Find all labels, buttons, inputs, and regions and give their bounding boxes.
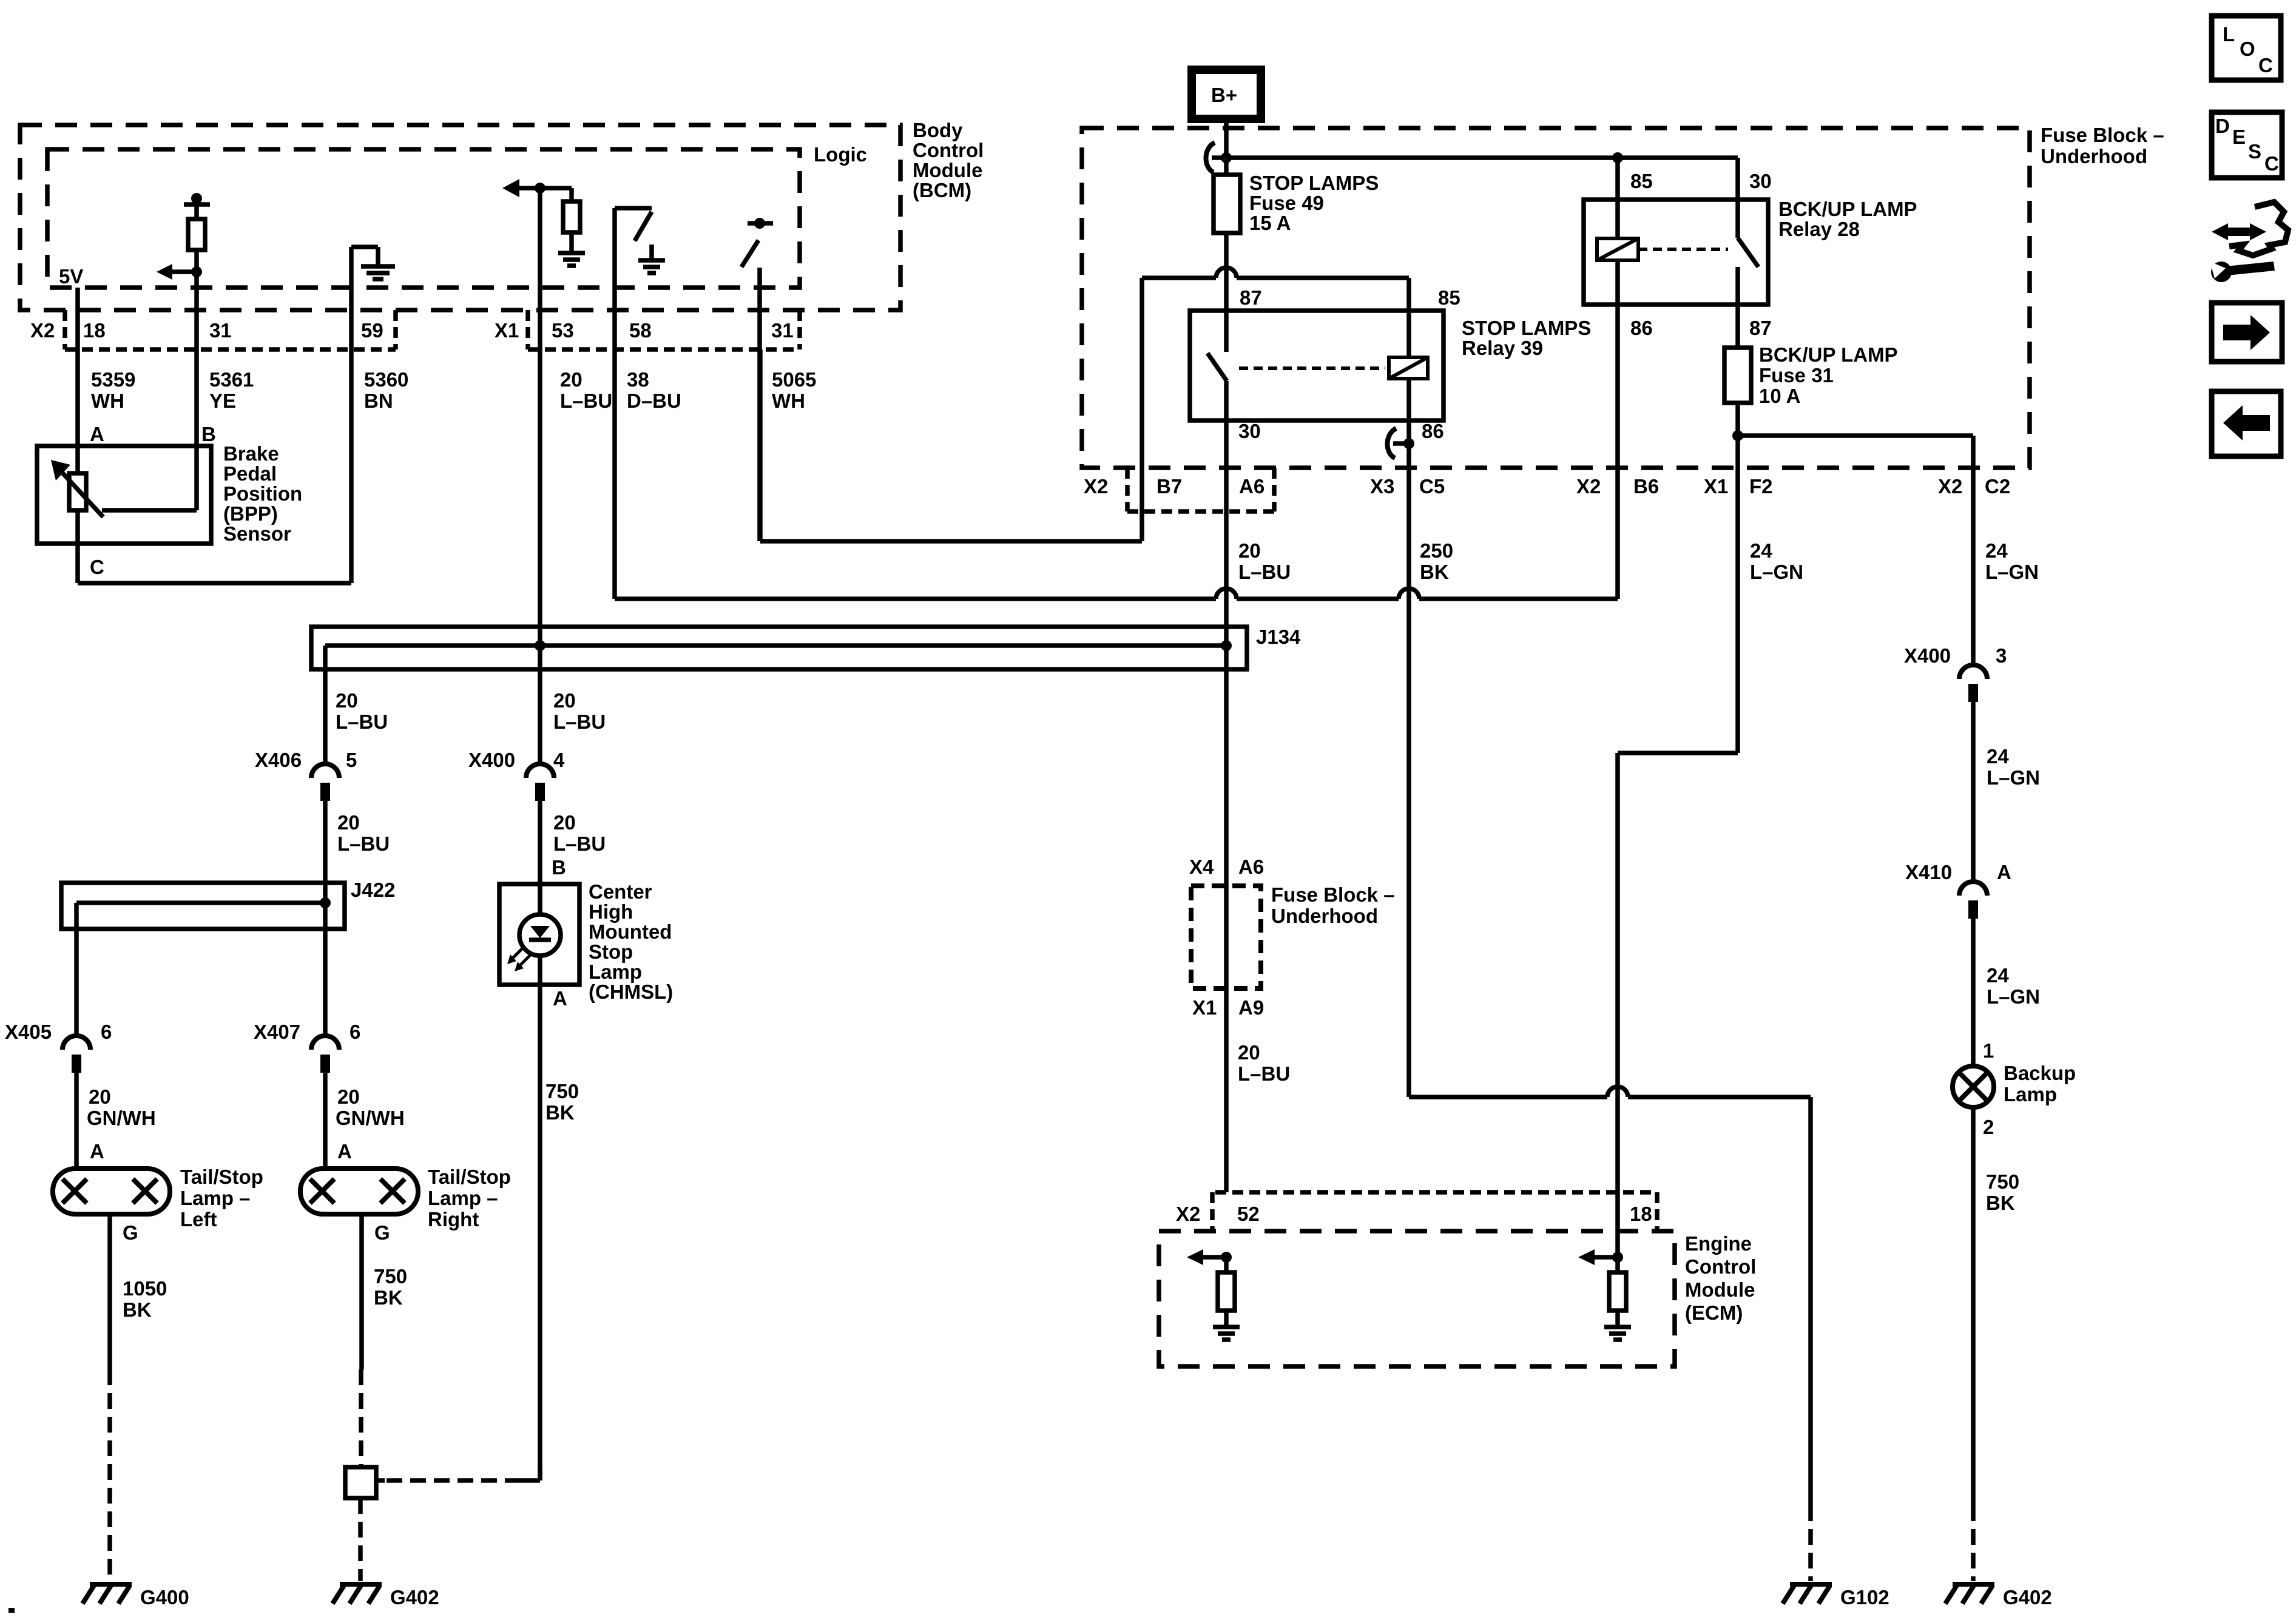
label X4 A6	[1189, 856, 1264, 878]
label pin 58	[629, 319, 652, 342]
wire BCM pin18 to BPP A	[75, 288, 80, 473]
icon DESC box	[2212, 112, 2282, 178]
svg-text:L–GN: L–GN	[1750, 561, 1803, 583]
splice pack J422	[61, 883, 345, 929]
svg-text:20: 20	[553, 811, 576, 834]
label wire 5360 BN	[364, 368, 408, 412]
potentiometer in BPP sensor	[51, 460, 197, 517]
svg-text:F2: F2	[1749, 475, 1773, 498]
svg-text:(ECM): (ECM)	[1685, 1301, 1743, 1324]
ECM connector dotted bracket	[1212, 1192, 1657, 1231]
svg-text:30: 30	[1238, 420, 1261, 442]
svg-text:L–BU: L–BU	[1238, 1062, 1290, 1085]
svg-text:BCK/UP LAMP: BCK/UP LAMP	[1778, 198, 1917, 220]
label A pin CHMSL	[553, 987, 567, 1010]
svg-text:X407: X407	[254, 1021, 300, 1043]
resistor in BCM on pin53 line	[563, 188, 580, 252]
svg-text:Tail/Stop: Tail/Stop	[180, 1166, 263, 1188]
svg-text:WH: WH	[772, 390, 805, 412]
svg-text:6: 6	[101, 1021, 112, 1043]
label STOP LAMPS Fuse 49 15 A	[1249, 172, 1379, 234]
svg-text:20: 20	[336, 689, 358, 712]
svg-text:X2: X2	[1576, 475, 1601, 498]
svg-text:5359: 5359	[91, 368, 135, 391]
node relay39 86 junction	[1403, 438, 1414, 449]
LED lamp CHMSL	[519, 884, 561, 985]
svg-text:WH: WH	[91, 390, 124, 412]
hook continuation symbol at B+ rail	[1206, 143, 1215, 172]
svg-text:G400: G400	[140, 1586, 189, 1609]
LED emission arrows CHMSL	[507, 948, 530, 971]
svg-text:5360: 5360	[364, 368, 408, 391]
ground G402 left	[333, 1584, 439, 1609]
svg-text:Relay 39: Relay 39	[1462, 337, 1543, 359]
svg-text:C2: C2	[1985, 475, 2010, 498]
fuse F49 STOP LAMPS	[1214, 175, 1240, 233]
svg-text:L–BU: L–BU	[553, 711, 606, 733]
svg-text:A: A	[553, 987, 567, 1010]
svg-text:Pedal: Pedal	[223, 462, 277, 485]
BCM Logic inner dashed box	[47, 149, 800, 288]
label 30 relay28	[1749, 170, 1772, 192]
svg-text:X410: X410	[1905, 861, 1952, 883]
icon LOC box	[2212, 16, 2281, 80]
connector X400 pin3	[1904, 644, 2007, 702]
svg-text:X406: X406	[255, 749, 302, 771]
svg-text:Left: Left	[180, 1208, 217, 1230]
ground (BCM pin53 resistor)	[558, 253, 585, 266]
label A6	[1239, 475, 1264, 498]
svg-text:5361: 5361	[209, 368, 254, 391]
svg-text:Sensor: Sensor	[223, 522, 291, 545]
svg-text:B7: B7	[1156, 475, 1182, 498]
switch blade relay39	[1207, 353, 1227, 381]
ground G102	[1783, 1584, 1889, 1609]
wire BCM pin31 to BPP B	[194, 272, 199, 510]
wire CHMSL ground dashed link	[376, 1465, 540, 1480]
svg-text:750: 750	[545, 1080, 579, 1102]
svg-text:Fuse Block –: Fuse Block –	[2041, 124, 2164, 146]
svg-text:A: A	[1997, 861, 2011, 883]
svg-text:Fuse 49: Fuse 49	[1249, 192, 1324, 214]
label Tail/Stop Lamp Right	[428, 1166, 511, 1230]
label X3 C5	[1370, 475, 1445, 498]
svg-text:87: 87	[1240, 286, 1262, 309]
svg-text:Lamp: Lamp	[589, 960, 642, 983]
svg-text:Control: Control	[1685, 1255, 1756, 1278]
svg-text:5065: 5065	[772, 368, 816, 391]
svg-text:250: 250	[1420, 539, 1453, 562]
svg-text:BK: BK	[374, 1286, 403, 1309]
svg-text:750: 750	[1986, 1170, 2019, 1193]
svg-text:Body: Body	[913, 119, 963, 141]
label 24 L-GN lower	[1987, 964, 2040, 1008]
wire BCM pin31 5065 down	[757, 268, 762, 541]
svg-text:J422: J422	[351, 879, 395, 901]
wire BCM pin53 down	[538, 188, 542, 764]
svg-text:Fuse Block –: Fuse Block –	[1271, 883, 1395, 906]
svg-text:GN/WH: GN/WH	[87, 1107, 156, 1129]
label 24 L-GN below C2	[1985, 539, 2039, 583]
wire X400-4 to CHMSL	[538, 801, 542, 914]
svg-text:L–BU: L–BU	[337, 832, 390, 855]
svg-text:L–BU: L–BU	[336, 711, 388, 733]
ground (BCM pin58 switch)	[638, 260, 665, 273]
wire relay39 30 internal	[1224, 381, 1229, 420]
connector bracket B7 A6	[1127, 468, 1274, 511]
ground G400	[83, 1584, 189, 1609]
svg-text:BK: BK	[545, 1101, 575, 1124]
svg-text:G: G	[123, 1221, 138, 1244]
label Body Control Module (BCM)	[913, 119, 984, 201]
svg-text:B6: B6	[1633, 475, 1659, 498]
svg-text:B: B	[552, 856, 566, 879]
wire 38 D-BU horizontal with hops	[615, 589, 1618, 599]
svg-text:(BCM): (BCM)	[913, 179, 971, 201]
svg-text:20: 20	[1238, 1041, 1260, 1064]
label 20 L-BU above CHMSL	[553, 811, 606, 855]
svg-text:(BPP): (BPP)	[223, 502, 278, 525]
label X1 A9	[1192, 996, 1264, 1019]
svg-text:A6: A6	[1239, 475, 1264, 498]
svg-text:B: B	[201, 423, 216, 445]
node ECM 52 junction with arrow	[1187, 1249, 1232, 1265]
label pin 53	[552, 319, 574, 342]
connector X407	[254, 1021, 360, 1073]
svg-text:Module: Module	[913, 159, 982, 181]
lamp Tail/Stop Right	[300, 1169, 418, 1214]
svg-text:24: 24	[1750, 539, 1772, 562]
svg-text:J134: J134	[1256, 626, 1301, 648]
wire X400-3 to X410	[1971, 702, 1976, 882]
wire left lamp ground	[107, 1214, 112, 1581]
label X2 C2	[1938, 475, 2010, 498]
label Fuse Block Underhood	[2041, 124, 2164, 167]
CHMSL box	[499, 884, 579, 985]
svg-text:58: 58	[629, 319, 652, 342]
label 750 BK backup	[1986, 1170, 2019, 1214]
svg-text:BCK/UP LAMP: BCK/UP LAMP	[1759, 343, 1898, 366]
label pin 18	[83, 319, 106, 342]
svg-text:L–BU: L–BU	[553, 832, 606, 855]
svg-text:20: 20	[337, 811, 360, 834]
label 86 relay39	[1422, 420, 1444, 442]
node junction with left arrow on pin53 line	[502, 179, 572, 197]
label Center High Mounted Stop Lamp (CHMSL)	[589, 880, 673, 1003]
svg-text:Position: Position	[223, 482, 302, 505]
svg-text:L–GN: L–GN	[1985, 561, 2039, 583]
svg-text:High: High	[589, 900, 633, 923]
connector X410	[1905, 861, 2011, 919]
svg-text:85: 85	[1438, 286, 1460, 309]
label X2 B6	[1576, 475, 1659, 498]
label X1 connector	[495, 319, 519, 342]
svg-text:52: 52	[1237, 1203, 1260, 1225]
svg-text:Mounted: Mounted	[589, 920, 672, 943]
coil relay39	[1389, 311, 1428, 420]
svg-text:53: 53	[552, 319, 574, 342]
label 87 relay28	[1749, 317, 1772, 339]
svg-text:A6: A6	[1238, 856, 1264, 878]
label 20 L-BU above X400-4	[553, 689, 606, 733]
ground splice box G402	[345, 1467, 376, 1581]
svg-text:5V: 5V	[59, 265, 83, 288]
label 5V	[59, 265, 83, 288]
node J422 splice dot	[320, 897, 331, 908]
wire B7 drop	[1140, 278, 1144, 541]
page corner mark	[8, 1608, 15, 1613]
svg-text:X2: X2	[1938, 475, 1962, 498]
wire J422 through to X407	[323, 883, 328, 1036]
svg-text:C5: C5	[1419, 475, 1445, 498]
label 20 L-BU above X406	[336, 689, 388, 733]
label BCK/UP LAMP Relay 28	[1778, 198, 1917, 240]
label Logic	[814, 143, 867, 166]
svg-text:X2: X2	[1176, 1203, 1200, 1225]
resistor ECM 52	[1218, 1257, 1235, 1327]
label A pin left lamp	[90, 1140, 104, 1163]
label B pin CHMSL	[552, 856, 566, 879]
svg-text:(CHMSL): (CHMSL)	[589, 981, 673, 1003]
label A pin right lamp	[337, 1140, 352, 1163]
svg-text:Relay 28: Relay 28	[1778, 218, 1860, 240]
node relay28 85 tap	[1612, 152, 1623, 200]
svg-text:Lamp: Lamp	[2004, 1083, 2057, 1106]
svg-text:BN: BN	[364, 390, 393, 412]
wire backup lamp ground	[1971, 1107, 1976, 1581]
svg-text:X1: X1	[1192, 996, 1217, 1019]
wire 250 BK to G102 with hop	[1409, 1087, 1811, 1581]
label 2 pin backup lamp	[1983, 1116, 1994, 1138]
label 30 relay39	[1238, 420, 1261, 442]
BCM outer dashed box	[20, 125, 900, 310]
label 1050 BK	[123, 1277, 167, 1321]
svg-text:C: C	[90, 556, 104, 578]
svg-text:D–BU: D–BU	[627, 390, 681, 412]
wire CHMSL A down	[538, 985, 542, 1480]
label J422	[351, 879, 395, 901]
label 750 BK right lamp	[374, 1265, 407, 1309]
label 85 relay28	[1630, 170, 1653, 192]
svg-text:B+: B+	[1211, 84, 1237, 106]
connector X405	[5, 1021, 112, 1073]
wire right lamp ground	[361, 1214, 362, 1467]
svg-text:X1: X1	[495, 319, 519, 342]
hook continuation at relay39 86	[1387, 428, 1409, 458]
wire J422 tap to X405	[74, 903, 79, 1036]
ECM dashed box	[1159, 1231, 1675, 1366]
svg-text:O: O	[2240, 38, 2255, 60]
svg-text:85: 85	[1630, 170, 1653, 192]
svg-text:X405: X405	[5, 1021, 52, 1043]
wire to C2	[1738, 436, 1973, 665]
label 20 GN/WH left	[87, 1085, 156, 1129]
label 20 L-BU above J422	[337, 811, 390, 855]
wire fuse49 to relay39 pin87	[1224, 233, 1229, 352]
svg-text:Backup: Backup	[2004, 1062, 2076, 1084]
svg-text:4: 4	[553, 749, 565, 771]
svg-text:G102: G102	[1840, 1586, 1889, 1609]
svg-text:L: L	[2223, 23, 2235, 46]
svg-text:18: 18	[83, 319, 106, 342]
svg-text:86: 86	[1630, 317, 1653, 339]
svg-text:Lamp –: Lamp –	[180, 1187, 251, 1209]
label pin 31	[209, 319, 232, 342]
actuator dashed link relay39	[1239, 366, 1385, 370]
relay 39 STOP LAMPS box	[1190, 311, 1443, 420]
resistor ECM 18	[1609, 1257, 1626, 1327]
svg-text:10 A: 10 A	[1759, 385, 1800, 407]
label B pin BPP	[201, 423, 216, 445]
relay 28 BCK/UP LAMP box	[1584, 200, 1768, 305]
svg-text:D: D	[2215, 115, 2230, 137]
svg-text:Module: Module	[1685, 1278, 1755, 1301]
label Engine Control Module (ECM)	[1685, 1232, 1756, 1324]
wire F2 jog to ECM 18	[1618, 753, 1738, 1257]
node fuse31 output junction	[1732, 430, 1743, 441]
icon forward arrow box	[2212, 303, 2282, 362]
wire B7 to BCM 5065	[760, 349, 1142, 541]
svg-text:X2: X2	[30, 319, 55, 342]
label pin 18 ECM	[1630, 1203, 1652, 1225]
label X1 F2	[1704, 475, 1773, 498]
svg-text:24: 24	[1987, 964, 2009, 987]
ground G402 right	[1945, 1584, 2052, 1609]
label wire 20 L-BU pin53	[560, 368, 612, 412]
svg-text:Logic: Logic	[814, 143, 867, 166]
fuse F31 BCK/UP LAMP	[1724, 348, 1751, 403]
svg-text:L–GN: L–GN	[1987, 766, 2040, 789]
svg-text:S: S	[2248, 140, 2261, 163]
wire X406 to J422	[323, 801, 328, 883]
switch in BCM on pin58 line	[615, 208, 652, 259]
label Tail/Stop Lamp Left	[180, 1166, 263, 1230]
BPP sensor box	[37, 446, 211, 544]
svg-text:GN/WH: GN/WH	[336, 1107, 405, 1129]
svg-text:G: G	[374, 1221, 390, 1244]
svg-text:Underhood: Underhood	[2041, 145, 2147, 167]
connector X400 pin4	[468, 749, 565, 801]
label X2 connector	[30, 319, 55, 342]
svg-text:1050: 1050	[123, 1277, 167, 1300]
wire X405 to left lamp	[74, 1073, 79, 1169]
resistor in BCM on pin31 line	[184, 193, 210, 272]
BCM connector X2 bracket	[65, 310, 396, 349]
svg-text:38: 38	[627, 368, 649, 391]
node J134 splice dot right end	[1221, 640, 1232, 651]
label pin 31 X1	[771, 319, 794, 342]
svg-text:BK: BK	[1986, 1192, 2015, 1214]
wire BCM pin59 internal ground	[351, 247, 395, 279]
svg-text:A9: A9	[1238, 996, 1264, 1019]
svg-text:Lamp –: Lamp –	[428, 1187, 498, 1209]
svg-text:20: 20	[560, 368, 582, 391]
wire B+ rail to relay 28	[1212, 158, 1738, 200]
label 86 relay28	[1630, 317, 1653, 339]
BCM connector X1 bracket	[528, 310, 800, 349]
ground ECM 52	[1213, 1327, 1240, 1340]
wire X407 to right lamp	[323, 1073, 328, 1169]
svg-text:86: 86	[1422, 420, 1444, 442]
label 24 L-GN mid	[1987, 745, 2040, 789]
svg-text:24: 24	[1987, 745, 2009, 768]
svg-text:X400: X400	[1904, 644, 1951, 667]
svg-text:X3: X3	[1370, 475, 1394, 498]
label BCK/UP LAMP Fuse 31 10 A	[1759, 343, 1898, 407]
label wire 5359 WH	[91, 368, 135, 412]
actuator dashed link relay28	[1638, 248, 1728, 251]
svg-text:5: 5	[346, 749, 357, 771]
label 87 relay39	[1240, 286, 1262, 309]
svg-text:6: 6	[349, 1021, 360, 1043]
icon vehicle wiring with wrench	[2210, 202, 2288, 282]
svg-text:A: A	[90, 1140, 104, 1163]
label C pin BPP	[90, 556, 104, 578]
wire BPP C to pin59 wire	[78, 349, 351, 583]
wire relay28 86 down to BCM58 line	[1615, 305, 1620, 599]
svg-text:X4: X4	[1189, 856, 1214, 878]
svg-text:20: 20	[89, 1085, 111, 1108]
svg-text:87: 87	[1749, 317, 1772, 339]
svg-text:E: E	[2232, 126, 2246, 148]
svg-text:Right: Right	[428, 1208, 479, 1230]
node J134 splice dot on CHMSL feed	[535, 640, 545, 651]
wire relay39 85 to B7 with hop over 87 wire	[1142, 268, 1409, 311]
svg-text:X1: X1	[1704, 475, 1728, 498]
wire BCM pin58 down	[612, 208, 617, 599]
coil relay28	[1597, 200, 1638, 305]
svg-text:C: C	[2258, 54, 2273, 76]
svg-text:X2: X2	[1084, 475, 1108, 498]
label J134	[1256, 626, 1301, 648]
label X2 ECM	[1176, 1203, 1200, 1225]
B+ power symbol box	[1192, 70, 1261, 119]
icon back arrow box	[2212, 391, 2281, 456]
svg-text:L–BU: L–BU	[560, 390, 612, 412]
label wire 5065 WH	[772, 368, 816, 412]
label 20 L-BU above ECM	[1238, 1041, 1290, 1085]
svg-text:2: 2	[1983, 1116, 1994, 1138]
label X2 B7	[1084, 475, 1182, 498]
node B+ junction	[1221, 152, 1232, 163]
lamp Backup	[1953, 1066, 1994, 1107]
svg-text:24: 24	[1985, 539, 2008, 562]
label 24 L-GN below F2	[1750, 539, 1803, 583]
svg-text:1: 1	[1983, 1039, 1994, 1062]
label 750 BK CHMSL	[545, 1080, 579, 1124]
Fuse Block Underhood dashed box	[1082, 128, 2030, 468]
svg-text:Tail/Stop: Tail/Stop	[428, 1166, 511, 1188]
svg-text:L–GN: L–GN	[1987, 985, 2040, 1008]
wire relay39 86 down	[1406, 420, 1411, 1097]
svg-text:STOP LAMPS: STOP LAMPS	[1462, 317, 1591, 339]
node ECM 18 junction with arrow	[1578, 1249, 1623, 1265]
wire J134 tap to X406	[323, 646, 328, 764]
label pin 52 ECM	[1237, 1203, 1260, 1225]
svg-text:Center: Center	[589, 880, 652, 903]
svg-text:15 A: 15 A	[1249, 212, 1291, 234]
svg-text:Fuse 31: Fuse 31	[1759, 364, 1834, 387]
svg-text:STOP LAMPS: STOP LAMPS	[1249, 172, 1379, 194]
svg-text:Underhood: Underhood	[1271, 905, 1378, 927]
svg-text:G402: G402	[2003, 1586, 2052, 1609]
switch relay28	[1738, 200, 1758, 305]
label Fuse Block Underhood small	[1271, 883, 1395, 927]
svg-text:750: 750	[374, 1265, 407, 1288]
splice pack J134	[311, 627, 1247, 669]
label 85 relay39	[1438, 286, 1460, 309]
label Brake Pedal Position (BPP) Sensor	[223, 442, 302, 545]
